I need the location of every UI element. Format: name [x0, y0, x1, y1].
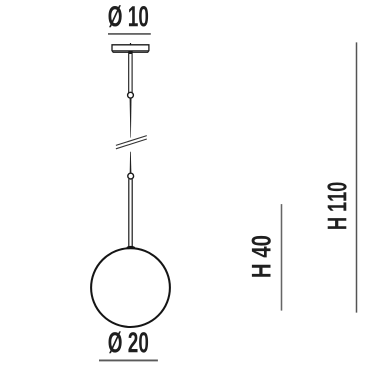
cable upper segment (tapered): [130, 98, 132, 137]
dimension text H 40: [252, 236, 271, 277]
dimension text Ø 20: [109, 331, 149, 353]
cable break symbol: [116, 136, 147, 149]
canopy centre tick: [130, 43, 132, 45]
lower ball joint: [128, 173, 134, 179]
suspension rod upper (double line): [129, 53, 132, 93]
dimension line under Ø 20: [99, 359, 158, 361]
sphere neck nub: [127, 246, 136, 249]
cable lower segment (tapered): [130, 152, 132, 173]
glass sphere: [91, 248, 170, 327]
dimension line H 110: [356, 42, 358, 312]
rod joint below canopy: [128, 51, 132, 54]
suspension rod lower (double line): [129, 179, 132, 247]
dimension line under Ø 10: [108, 33, 151, 35]
upper ball joint: [128, 92, 134, 98]
dimension line H 40: [281, 204, 283, 311]
dimension text H 110: [327, 183, 346, 229]
dimension text Ø 10: [109, 5, 149, 27]
canopy (ceiling cup): [112, 45, 149, 52]
